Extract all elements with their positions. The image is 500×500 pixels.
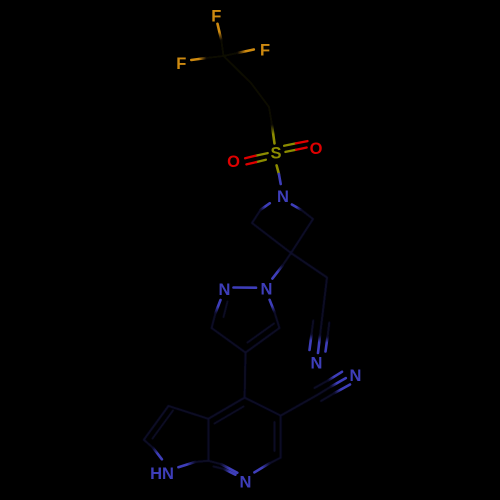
wire pyrazole N2-C3 (C half) xyxy=(212,313,216,328)
wire azaindole C7a=N7 outer (C half) xyxy=(208,461,221,464)
svg-text:HN: HN xyxy=(150,465,174,483)
wire CF3 C - CH2a xyxy=(224,56,252,83)
bond F2-C fluorine half xyxy=(191,58,206,60)
bond S=O left lower, O half xyxy=(246,162,256,164)
svg-text:F: F xyxy=(176,55,186,73)
bond pyrazole N2-C3 nitrogen half xyxy=(216,300,221,313)
wire azetidine N-C4 (C half) xyxy=(301,210,313,219)
svg-text:N: N xyxy=(219,281,231,299)
wire azetidine C4-C3 xyxy=(291,219,313,253)
bond pyrazole N1 - azetidine C3 nitrogen half xyxy=(272,266,282,279)
wire nitrile2 C half center line xyxy=(317,387,331,395)
svg-text:F: F xyxy=(211,8,221,26)
wire nitrile1 C half center line xyxy=(320,319,322,336)
wire azaindole C6-C5 xyxy=(280,416,282,458)
wire azaindole C6=C5 inner line xyxy=(274,422,276,451)
wire azaindole C3a-C7a xyxy=(207,419,209,461)
bond N7=C7a inner line nitrogen half xyxy=(224,469,235,475)
wire CF3 C to F2 (C half) xyxy=(206,56,223,58)
bond pyrrole NH-C7a nitrogen half xyxy=(178,462,195,467)
wire pyrazole C3-C4 xyxy=(212,328,246,353)
wire azaindole C4-C3a xyxy=(208,398,244,419)
bond S=O left lower, S half xyxy=(256,160,266,162)
svg-text:N: N xyxy=(277,188,289,206)
wire CF3 C to F3 (C half) xyxy=(224,53,238,56)
bond S=O right lower, S half xyxy=(285,150,296,152)
bond F3-C fluorine half xyxy=(238,50,254,54)
wire azaindole C5 - nitrile2 C xyxy=(281,395,318,416)
wire azetidine N-C2 (C half) xyxy=(252,210,261,223)
bond S-CH2b sulfur half xyxy=(272,125,275,144)
bond nitrile1 right line N half xyxy=(326,337,328,352)
wire azetidine C3 - pyrazole N1 (C half) xyxy=(283,253,292,266)
wire CH2b - S (C half) xyxy=(269,107,272,125)
bond azetidine N-C2 nitrogen half xyxy=(261,203,270,210)
svg-text:N: N xyxy=(350,367,362,385)
wire pyrazole C5-N1 (C half) xyxy=(274,312,279,328)
svg-text:S: S xyxy=(270,144,281,162)
bond N7-C6 nitrogen half xyxy=(254,463,269,472)
svg-text:N: N xyxy=(311,354,323,372)
bond nitrile1 center line N half xyxy=(318,336,320,354)
wire nitrile2 C half bottom line xyxy=(321,393,335,401)
wire azetidine C2-C3 xyxy=(252,223,291,253)
bond nitrile1 left line N half xyxy=(310,335,312,351)
bond S=O right lower, O half xyxy=(296,148,307,150)
svg-text:N: N xyxy=(240,473,252,491)
wire pyrrole NH-C7a (C half) xyxy=(195,461,208,462)
svg-text:N: N xyxy=(261,280,273,298)
bond S-N nitrogen half xyxy=(279,174,281,184)
wire pyrrole NH-C2 (C half) xyxy=(144,440,153,448)
bond nitrile2 top line N half xyxy=(328,372,342,381)
bond pyrazole N1-C5 nitrogen half xyxy=(270,300,275,312)
bond nitrile2 bottom line N half xyxy=(335,385,350,394)
bond S=O right upper, S half xyxy=(284,143,296,145)
svg-text:O: O xyxy=(227,153,240,171)
bond S=O left upper, O half xyxy=(245,156,255,159)
wire CH2 - nitrile1 C xyxy=(322,278,327,320)
wire CH2a - CH2b xyxy=(251,83,269,107)
wire azaindole C7a=N7 inner (C half) xyxy=(214,467,225,470)
wire nitrile1 C half right line xyxy=(328,323,330,338)
svg-text:F: F xyxy=(260,41,270,59)
wire azaindole N7-C6 (C half) xyxy=(270,458,281,464)
wire pyrazole C4 - azaindole C4 xyxy=(244,353,247,398)
wire azaindole C5-C4 xyxy=(245,398,281,416)
wire azetidine C3 - CH2 cyanomethyl xyxy=(291,253,327,278)
wire pyrrole C3-C3a xyxy=(169,406,209,419)
wire azaindole C4=C3a inner line xyxy=(215,407,244,424)
bond pyrazole N2-N1 xyxy=(234,286,257,289)
bond S=O right upper, O half xyxy=(296,141,308,143)
bond nitrile2 center line N half xyxy=(331,378,346,387)
svg-text:O: O xyxy=(310,140,323,158)
wire pyrrole C2-C3 xyxy=(144,406,169,440)
wire pyrazole N2=C3 inner line xyxy=(224,302,228,318)
wire nitrile1 C half left line xyxy=(312,321,314,335)
bond pyrrole NH-C2 nitrogen half xyxy=(153,448,162,459)
bond S=O left upper, S half xyxy=(256,153,268,156)
wire CF3 C to F1 (C half) xyxy=(221,40,223,56)
bond N7=C7a outer line nitrogen half xyxy=(221,464,237,473)
wire nitrile2 C half top line xyxy=(315,380,329,388)
bond F1-C fluorine half xyxy=(218,24,222,40)
wire pyrazole C4=C5 inner line xyxy=(248,324,275,343)
bond azetidine N-C4 nitrogen half xyxy=(292,205,301,210)
wire pyrrole C2=C3 inner line xyxy=(153,411,174,439)
wire pyrazole C4-C5 xyxy=(246,328,280,353)
bond S-N sulfur half xyxy=(277,165,279,174)
